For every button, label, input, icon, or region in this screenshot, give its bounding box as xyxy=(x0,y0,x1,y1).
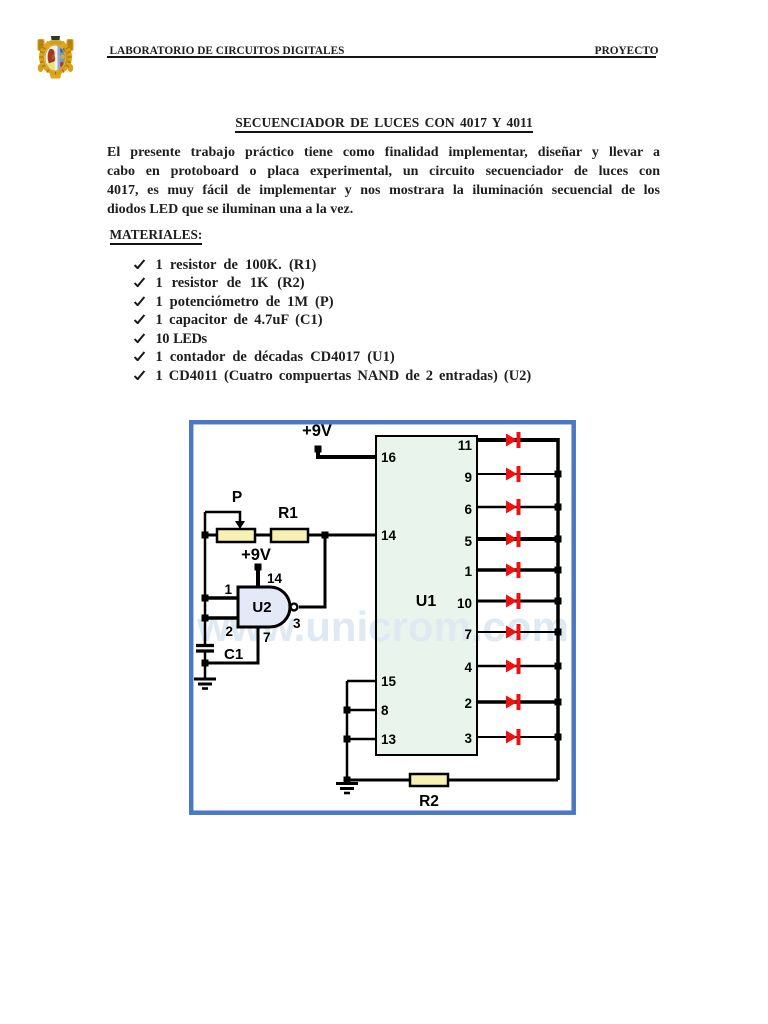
svg-text:U1: U1 xyxy=(416,593,437,610)
svg-text:7: 7 xyxy=(464,627,472,642)
svg-text:9: 9 xyxy=(464,470,472,485)
svg-text:U2: U2 xyxy=(252,599,271,616)
svg-text:R2: R2 xyxy=(419,793,439,810)
svg-text:11: 11 xyxy=(458,438,473,453)
svg-text:C1: C1 xyxy=(224,646,243,663)
svg-text:10: 10 xyxy=(457,596,472,611)
svg-text:7: 7 xyxy=(263,630,271,645)
svg-text:8: 8 xyxy=(381,703,389,718)
svg-text:13: 13 xyxy=(381,732,397,747)
svg-text:4: 4 xyxy=(464,660,472,675)
svg-text:1: 1 xyxy=(464,564,472,579)
svg-text:15: 15 xyxy=(381,674,397,689)
svg-text:3: 3 xyxy=(293,616,301,631)
svg-text:P: P xyxy=(232,489,242,506)
svg-text:2: 2 xyxy=(464,696,472,711)
svg-text:16: 16 xyxy=(381,450,397,465)
svg-text:2: 2 xyxy=(225,624,233,639)
svg-text:+9V: +9V xyxy=(241,546,271,564)
svg-text:R1: R1 xyxy=(278,505,298,522)
svg-text:14: 14 xyxy=(381,528,397,543)
svg-text:14: 14 xyxy=(267,571,283,586)
svg-text:5: 5 xyxy=(464,534,472,549)
svg-text:1: 1 xyxy=(224,582,232,597)
svg-text:+9V: +9V xyxy=(302,422,332,440)
svg-text:3: 3 xyxy=(464,731,472,746)
svg-text:6: 6 xyxy=(464,502,472,517)
